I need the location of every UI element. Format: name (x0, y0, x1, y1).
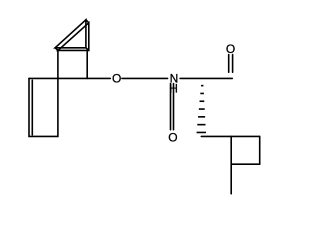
wire cyclobutane left edge and methyl stem (230, 136, 232, 193)
wire cyclobutene double-bond inner line (31, 80, 33, 135)
wire O to N bond (122, 77, 168, 79)
wire C=O aldehyde double bond line 1 (228, 55, 230, 73)
wire cage back triangle (55, 20, 86, 48)
wire main chain horizontal to O (29, 77, 110, 79)
node hashed wedge dash 4 (199, 108, 205, 110)
node hashed wedge dash 2 (200, 93, 204, 95)
wire bond to cyclobutane ring lower right (201, 135, 259, 137)
svg-text:O: O (112, 72, 121, 86)
wire cage connector bottom-right (86, 48, 89, 51)
wire N=O double bond line 1 (170, 84, 172, 130)
wire cage right leg (86, 50, 88, 78)
svg-text:O: O (168, 131, 177, 145)
wire ring right edge and cage left leg (57, 50, 59, 136)
wire cyclobutane right edge (259, 136, 261, 164)
wire cyclobutene ring left outer edge (29, 78, 58, 136)
svg-text:H: H (169, 82, 178, 96)
node hashed wedge dash 7 (197, 132, 206, 134)
wire N to C bond (180, 77, 232, 79)
wire cage front triangle (58, 23, 89, 51)
wire C=O aldehyde double bond line 2 (232, 55, 234, 73)
node hashed wedge dash 6 (197, 124, 205, 126)
wire N=O double bond line 2 (173, 84, 175, 130)
node hashed wedge dash 5 (198, 116, 205, 118)
node hashed wedge dash 1 (201, 85, 203, 87)
node hashed wedge dash 3 (200, 100, 205, 102)
wire cage connector apex (86, 20, 89, 23)
wire cyclobutane bottom edge (231, 163, 260, 165)
wire cage connector bottom-left (55, 48, 58, 51)
svg-text:O: O (226, 42, 235, 56)
